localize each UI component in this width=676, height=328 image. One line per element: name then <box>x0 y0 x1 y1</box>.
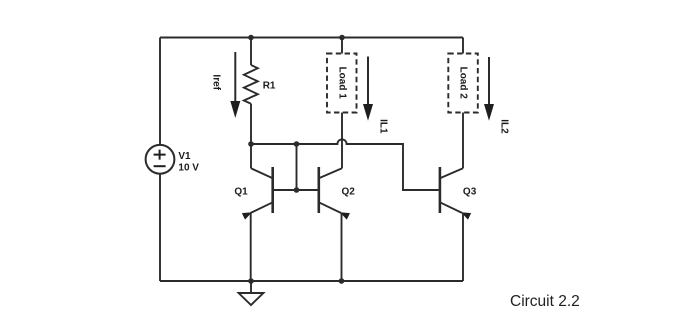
transistor Q2 <box>319 167 350 220</box>
current arrow IL1 <box>363 57 373 121</box>
svg-text:IL2: IL2 <box>499 119 510 134</box>
load 2 <box>448 54 478 113</box>
wire R1 top lead <box>250 38 252 66</box>
wire Q3 collector lead <box>462 113 464 169</box>
svg-text:R1: R1 <box>263 81 276 92</box>
svg-text:IL1: IL1 <box>378 119 389 134</box>
wire R1 bottom lead <box>250 104 252 144</box>
junction dot top rail Load 1 <box>339 35 345 41</box>
wire Q2 emitter lead <box>341 213 343 281</box>
junction dot base wire <box>294 187 300 193</box>
wire bottom rail <box>160 280 463 282</box>
wire Q1 Q2 base link <box>273 189 319 191</box>
svg-text:Q3: Q3 <box>463 186 477 197</box>
resistor R1 <box>244 65 258 104</box>
junction dot Q2 emitter node <box>339 278 345 284</box>
label V1 10 V <box>178 151 199 174</box>
wire Q1 emitter lead <box>250 213 252 281</box>
svg-text:Q1: Q1 <box>234 186 248 197</box>
svg-text:Iref: Iref <box>210 74 221 90</box>
junction dot R1 collector node <box>248 141 254 147</box>
wire V1 top lead <box>159 38 161 145</box>
wire Q1 collector lead <box>250 144 252 168</box>
current arrow IL2 <box>484 57 494 121</box>
load 1 <box>327 54 357 113</box>
svg-text:10 V: 10 V <box>178 162 199 173</box>
wire top rail <box>160 37 463 39</box>
current arrow Iref <box>230 52 240 118</box>
svg-text:Circuit 2.2: Circuit 2.2 <box>510 293 580 310</box>
wire Q3 emitter lead <box>462 213 464 281</box>
ground <box>239 281 264 305</box>
wire node rail to Q3 base with hop <box>251 139 439 190</box>
transistor Q3 <box>440 167 471 220</box>
svg-text:Q2: Q2 <box>342 186 356 197</box>
wire Q2 collector lead <box>341 113 343 169</box>
wire Load 1 top lead <box>341 38 343 54</box>
svg-text:Load 1: Load 1 <box>336 67 347 100</box>
wire V1 bottom lead <box>159 174 161 281</box>
svg-text:Load 2: Load 2 <box>457 67 468 100</box>
voltage source V1 <box>146 145 175 174</box>
transistor Q1 <box>242 167 273 220</box>
wire Load 2 top lead <box>462 38 464 54</box>
junction dot ground node <box>248 278 254 284</box>
junction dot top rail R1 <box>248 35 254 41</box>
junction dot base tie top <box>294 141 300 147</box>
wire base tie vertical <box>296 144 298 190</box>
svg-text:V1: V1 <box>178 151 191 162</box>
